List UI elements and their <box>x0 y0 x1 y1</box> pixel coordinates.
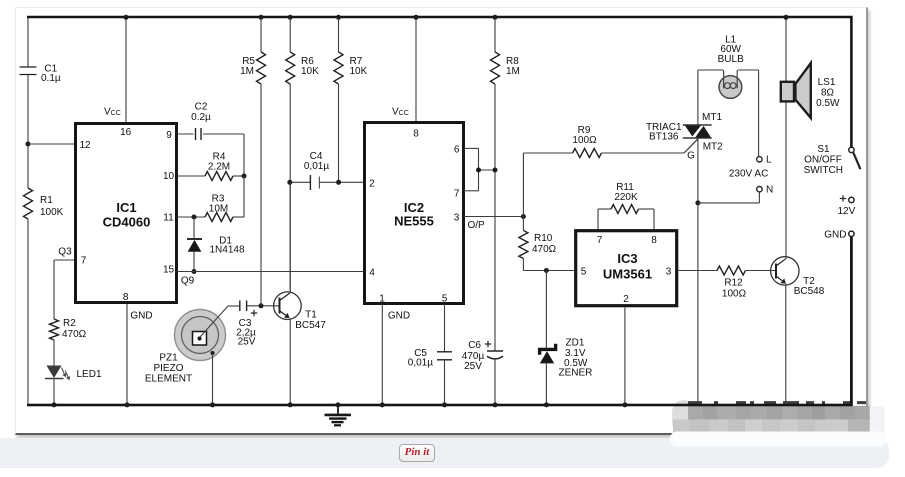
svg-text:PZ1: PZ1 <box>159 353 178 364</box>
svg-text:GND: GND <box>824 229 846 240</box>
svg-text:12V: 12V <box>838 206 856 217</box>
svg-text:1M: 1M <box>240 66 254 77</box>
svg-text:8: 8 <box>651 235 657 246</box>
svg-text:470Ω: 470Ω <box>532 244 557 255</box>
svg-text:MT1: MT1 <box>702 112 722 123</box>
svg-text:10K: 10K <box>350 66 368 77</box>
svg-text:0,01µ: 0,01µ <box>408 358 433 369</box>
svg-text:0.5W: 0.5W <box>816 98 840 109</box>
svg-text:R2: R2 <box>63 318 76 329</box>
svg-text:25V: 25V <box>464 361 482 372</box>
svg-text:100Ω: 100Ω <box>722 289 747 300</box>
svg-text:O/P: O/P <box>468 220 486 231</box>
svg-text:220K: 220K <box>614 192 638 203</box>
svg-text:BULB: BULB <box>718 54 744 65</box>
svg-text:5: 5 <box>581 267 587 278</box>
svg-text:MT2: MT2 <box>703 142 723 153</box>
svg-text:LS1: LS1 <box>818 77 836 88</box>
svg-text:100K: 100K <box>40 207 64 218</box>
svg-text:Q3: Q3 <box>58 247 72 258</box>
svg-text:3: 3 <box>454 213 460 224</box>
svg-text:VCC: VCC <box>392 107 409 118</box>
svg-text:0,01µ: 0,01µ <box>304 161 329 172</box>
svg-text:230V AC: 230V AC <box>729 169 768 180</box>
svg-text:CD4060: CD4060 <box>103 214 151 229</box>
svg-text:8: 8 <box>413 129 419 140</box>
svg-text:LED1: LED1 <box>77 369 102 380</box>
svg-text:7: 7 <box>597 235 603 246</box>
svg-text:11: 11 <box>163 213 174 224</box>
svg-text:0.2µ: 0.2µ <box>191 112 211 123</box>
svg-text:SWITCH: SWITCH <box>804 165 843 176</box>
svg-text:1: 1 <box>379 294 385 305</box>
svg-text:10: 10 <box>163 171 175 182</box>
svg-text:6: 6 <box>454 145 460 156</box>
svg-text:IC3: IC3 <box>617 251 637 266</box>
svg-text:2.2M: 2.2M <box>208 162 230 173</box>
svg-text:L: L <box>766 155 772 166</box>
svg-text:R10: R10 <box>534 233 553 244</box>
svg-text:Q9: Q9 <box>181 276 195 287</box>
svg-text:ZENER: ZENER <box>559 368 593 379</box>
svg-text:S1: S1 <box>817 144 830 155</box>
svg-text:12: 12 <box>79 140 91 151</box>
svg-text:3: 3 <box>666 267 672 278</box>
svg-text:15: 15 <box>163 265 175 276</box>
svg-text:G: G <box>687 151 695 162</box>
svg-text:1N4148: 1N4148 <box>209 245 244 256</box>
svg-text:NE555: NE555 <box>394 214 434 229</box>
svg-text:470Ω: 470Ω <box>62 329 87 340</box>
svg-text:10M: 10M <box>209 204 228 215</box>
svg-text:PIEZO: PIEZO <box>153 363 183 374</box>
svg-text:7: 7 <box>81 256 87 267</box>
svg-text:BC547: BC547 <box>295 320 326 331</box>
svg-text:1M: 1M <box>506 66 520 77</box>
svg-text:2: 2 <box>623 294 629 305</box>
svg-text:0.1µ: 0.1µ <box>41 73 61 84</box>
svg-text:GND: GND <box>388 311 410 322</box>
svg-text:10K: 10K <box>301 66 319 77</box>
svg-text:100Ω: 100Ω <box>572 135 597 146</box>
svg-text:IC1: IC1 <box>116 200 136 215</box>
svg-text:ON/OFF: ON/OFF <box>804 155 842 166</box>
svg-text:ZD1: ZD1 <box>566 338 585 349</box>
svg-text:BT136: BT136 <box>649 132 679 143</box>
svg-text:N: N <box>766 185 773 196</box>
svg-text:UM3561: UM3561 <box>603 266 652 281</box>
svg-text:BC548: BC548 <box>794 286 825 297</box>
svg-text:5: 5 <box>442 294 448 305</box>
svg-text:9: 9 <box>166 130 172 141</box>
svg-text:VCC: VCC <box>104 107 121 118</box>
svg-text:25V: 25V <box>238 337 256 348</box>
svg-text:8: 8 <box>123 292 129 303</box>
svg-text:R1: R1 <box>40 195 53 206</box>
svg-text:R12: R12 <box>724 278 743 289</box>
svg-text:4: 4 <box>369 268 375 279</box>
svg-text:C6: C6 <box>468 340 481 351</box>
svg-text:GND: GND <box>130 311 152 322</box>
svg-text:16: 16 <box>120 127 132 138</box>
svg-text:7: 7 <box>454 188 460 199</box>
svg-text:2: 2 <box>369 178 375 189</box>
svg-text:ELEMENT: ELEMENT <box>145 374 192 385</box>
